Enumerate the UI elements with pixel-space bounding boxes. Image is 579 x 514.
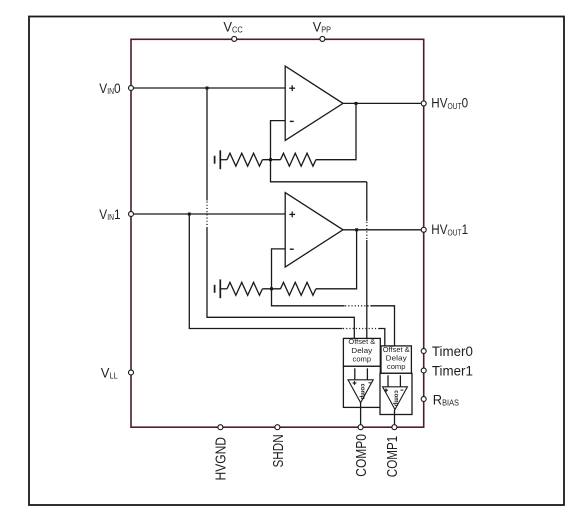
- wire R1-R2: [262, 159, 280, 161]
- pin COMP1: [392, 425, 397, 430]
- svg-text:Timer1: Timer1: [432, 363, 473, 378]
- op-amp U3 plus mark: [289, 212, 295, 218]
- comparator U4 plus mark: [353, 381, 357, 385]
- node junction ch0 fb: [269, 158, 272, 161]
- wire comp0 output to pin: [360, 403, 362, 428]
- svg-text:comp: comp: [353, 354, 372, 363]
- block comp1: comparator box U5: [380, 373, 412, 414]
- comparator U4 input stubs: [354, 368, 356, 380]
- pin COMP0: [358, 425, 363, 430]
- ground (channel 0): [215, 150, 221, 169]
- block comp1: offset & delay box: [381, 346, 411, 373]
- wire comp0 right input vertical: [366, 182, 368, 221]
- resistor R1 (ch0 gnd leg): [227, 153, 262, 166]
- pin HVOUT0: [421, 101, 426, 106]
- op-amp U3 (bottom): [285, 193, 343, 267]
- wire VIN1 tap vertical: [189, 214, 342, 329]
- pin SHDN: [275, 425, 280, 430]
- resistor R4 (ch1 feedback): [281, 282, 316, 295]
- svg-text:Timer0: Timer0: [432, 344, 473, 359]
- op-amp U2 (top): [285, 66, 343, 140]
- block comp0: offset & delay box: [343, 338, 380, 366]
- wire VIN0 net: [131, 87, 285, 89]
- comparator U4 minus mark: [369, 382, 372, 384]
- pin VLL: [129, 370, 134, 375]
- pin Timer1: [421, 368, 426, 373]
- pin HVGND: [218, 425, 223, 430]
- wire R3-R4: [262, 288, 280, 290]
- node junction VIN1 tap: [188, 213, 191, 216]
- node junction ch0 out: [355, 102, 358, 105]
- wire R4 to output: [316, 230, 357, 289]
- op-amp U2 minus mark: [290, 120, 294, 122]
- op-amp U2 plus mark: [289, 85, 295, 91]
- pin VIN1: [129, 212, 134, 217]
- pin VCC: [232, 36, 237, 41]
- wire U3 inverting input: [272, 249, 345, 306]
- comparator U5 minus mark: [401, 389, 404, 391]
- wire U2 output: [343, 102, 424, 104]
- resistor R3 (ch1 gnd leg): [227, 282, 262, 295]
- svg-text:COMP1: COMP1: [385, 436, 401, 477]
- comparator U5 input stubs: [387, 375, 389, 387]
- ground (channel 1): [215, 279, 221, 298]
- svg-text:COMP0: COMP0: [354, 434, 370, 477]
- wire U2 inverting input: [271, 121, 367, 182]
- comparator U5 triangle: [383, 387, 408, 410]
- op-amp U3 minus mark: [290, 248, 294, 250]
- wire VIN0 tap vertical: [206, 88, 208, 201]
- svg-text:SHDN: SHDN: [271, 434, 287, 467]
- block comp0: comparator box U4: [343, 366, 380, 407]
- svg-text:HVGND: HVGND: [213, 437, 229, 481]
- wire VIN1 net: [131, 213, 285, 215]
- node junction ch1 out: [355, 228, 358, 231]
- node junction VIN0 tap: [206, 87, 209, 90]
- pin HVOUT1: [421, 227, 426, 232]
- pin RBIAS: [421, 397, 426, 402]
- pin VIN0: [129, 86, 134, 91]
- comparator U4 triangle: [348, 380, 373, 403]
- chip boundary U1 (red): [131, 39, 424, 427]
- pin VPP: [320, 36, 325, 41]
- svg-text:comp: comp: [359, 384, 366, 400]
- svg-text:comp: comp: [393, 390, 400, 406]
- svg-text:comp: comp: [387, 362, 406, 371]
- pin Timer0: [421, 349, 426, 354]
- node junction ch1 fb: [270, 287, 273, 290]
- wire U3 output: [343, 229, 424, 231]
- resistor R2 (ch0 feedback): [281, 153, 316, 166]
- comparator U5 plus mark: [384, 388, 388, 392]
- wire R2 to output: [316, 103, 356, 159]
- wire comp1 output to pin: [394, 410, 396, 428]
